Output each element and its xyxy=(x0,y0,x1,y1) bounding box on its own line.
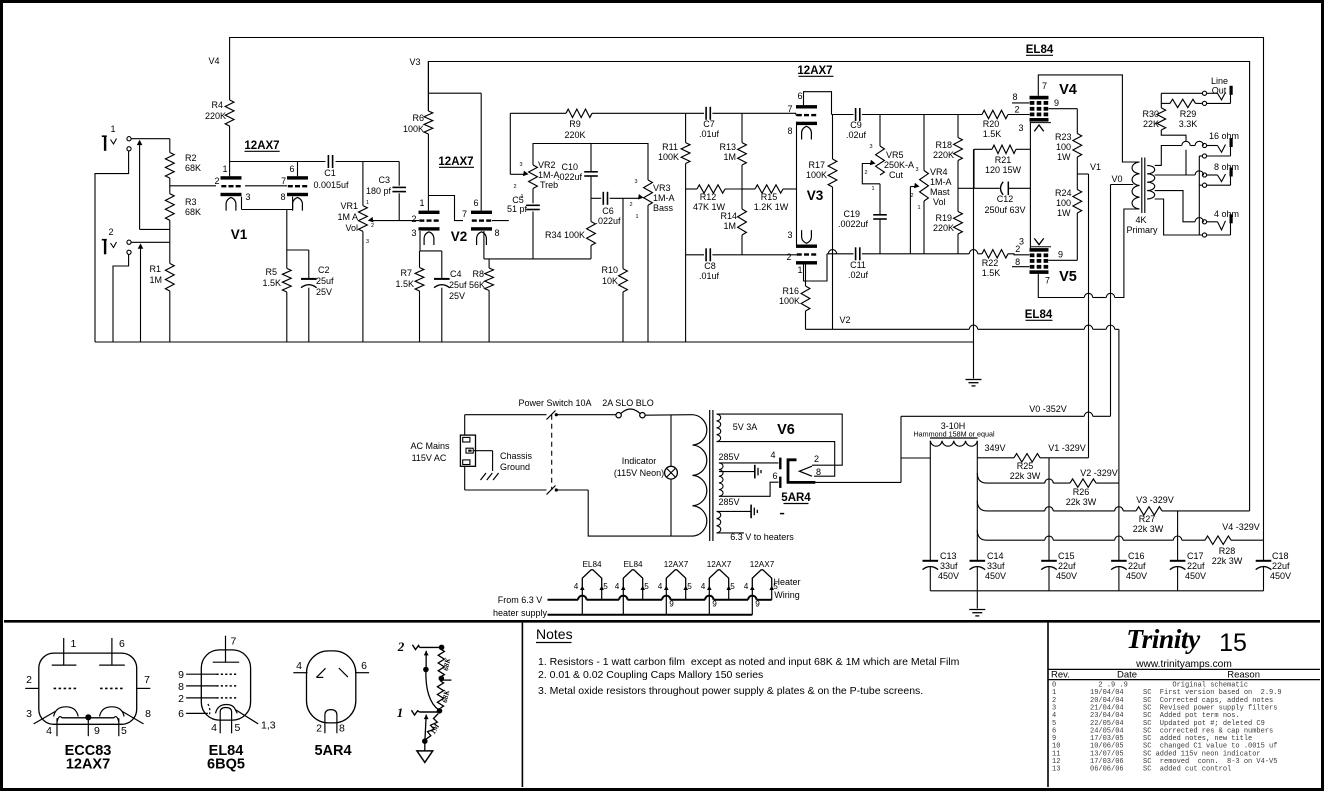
svg-text:VR1: VR1 xyxy=(340,201,358,211)
svg-text:Indicator: Indicator xyxy=(622,456,657,466)
svg-text:3: 3 xyxy=(787,230,792,240)
wire 5V bottom to rectifier pin 8 xyxy=(717,442,835,477)
svg-text:100K: 100K xyxy=(779,296,800,306)
svg-text:V1: V1 xyxy=(231,227,248,242)
wire R16 to V2 supply line xyxy=(805,311,807,329)
svg-text:6: 6 xyxy=(361,660,367,672)
svg-text:12AX7: 12AX7 xyxy=(750,560,775,569)
svg-text:349V: 349V xyxy=(984,443,1005,453)
svg-text:Reason: Reason xyxy=(1227,670,1260,681)
ground symbol filter xyxy=(969,609,985,611)
wire jack2 sleeve ground xyxy=(113,254,129,342)
svg-text:C19: C19 xyxy=(843,209,860,219)
svg-text:R12: R12 xyxy=(700,192,717,202)
svg-text:8: 8 xyxy=(145,708,151,720)
svg-text:3: 3 xyxy=(869,144,872,150)
svg-text:2: 2 xyxy=(108,227,113,237)
tube V2 triode a xyxy=(419,211,440,214)
wire rectifier B+ output xyxy=(815,481,901,483)
svg-text:Bass: Bass xyxy=(653,203,674,213)
svg-text:120 15W: 120 15W xyxy=(985,165,1022,175)
5V 3A winding xyxy=(717,414,721,442)
svg-text:R19: R19 xyxy=(935,213,952,223)
wire V0 feed down xyxy=(1110,185,1112,417)
svg-text:1: 1 xyxy=(222,164,227,174)
resistor R15 1.2K 1W xyxy=(755,185,783,193)
wire choke left leg down through C13 xyxy=(929,441,931,561)
svg-text:VR5: VR5 xyxy=(886,150,904,160)
sketch bottom node dot xyxy=(423,739,428,744)
svg-text:450V: 450V xyxy=(938,571,959,581)
resistor R12 47K 1W xyxy=(697,185,725,193)
svg-text:1: 1 xyxy=(71,638,77,650)
svg-text:220K: 220K xyxy=(933,150,954,160)
wire V1 screen feed down xyxy=(1088,174,1090,458)
divider between tube diagrams and notes xyxy=(521,623,523,787)
svg-text:C14: C14 xyxy=(987,551,1004,561)
wire VR3 bottom to ground bus xyxy=(647,205,649,342)
sketch jack1 wire and node dot xyxy=(420,711,440,713)
svg-text:1.5K: 1.5K xyxy=(395,279,414,289)
fuse xyxy=(616,413,621,418)
svg-text:1.5K: 1.5K xyxy=(983,129,1002,139)
heater 12AX7 tube 4 xyxy=(709,570,728,588)
capacitor C6 .022uf xyxy=(602,192,604,205)
5AR4 pin 6 xyxy=(355,672,369,674)
wire R30 to 8 ohm tap xyxy=(1161,130,1186,141)
svg-text:180 pf: 180 pf xyxy=(366,186,392,196)
resistor R28 22k 3W xyxy=(1205,536,1231,544)
wire VR1 bottom to ground bus xyxy=(362,231,364,342)
svg-text:25V: 25V xyxy=(449,291,465,301)
svg-text:5: 5 xyxy=(730,582,735,591)
wire jack1 tip to R2 xyxy=(131,138,170,140)
capacitor C19 .0022uf xyxy=(879,184,881,214)
svg-text:56K: 56K xyxy=(469,280,485,290)
svg-text:100: 100 xyxy=(1056,198,1071,208)
svg-text:3: 3 xyxy=(1018,123,1023,133)
svg-text:AC Mains: AC Mains xyxy=(410,441,450,451)
svg-text:C16: C16 xyxy=(1128,551,1145,561)
resistor R26 22k 3W xyxy=(1070,479,1096,487)
wire V2 grid b stub xyxy=(492,220,509,222)
svg-text:C10: C10 xyxy=(561,162,578,172)
svg-text:22uf: 22uf xyxy=(1058,561,1076,571)
wire to VR1 top xyxy=(362,162,364,206)
5AR4 plates diagonals xyxy=(316,668,325,677)
wire PI network ground drop xyxy=(685,255,687,342)
potentiometer VR1 1M A Vol xyxy=(359,206,368,232)
tube V3 triode upper xyxy=(796,105,817,108)
wire B+ riser to V0 line xyxy=(900,416,902,482)
EL84 pin 6 xyxy=(186,712,208,714)
svg-text:R8: R8 xyxy=(472,269,484,279)
resistor R7 1.5K xyxy=(415,268,424,292)
svg-text:1: 1 xyxy=(110,124,115,134)
svg-text:3: 3 xyxy=(245,192,250,202)
svg-text:4: 4 xyxy=(701,582,706,591)
capacitor C8 .01uf xyxy=(705,248,707,261)
svg-text:15: 15 xyxy=(1219,629,1247,657)
sketch top wire with node dot xyxy=(420,646,442,648)
svg-text:220K: 220K xyxy=(205,111,226,121)
wire V1 pin6 plate up xyxy=(297,162,299,177)
svg-text:Vol: Vol xyxy=(345,223,358,233)
wire V4 supply rail top xyxy=(230,38,1264,541)
switch dashed gang line xyxy=(551,415,553,490)
svg-text:R2: R2 xyxy=(185,153,197,163)
svg-text:R15: R15 xyxy=(761,192,778,202)
wire C6 line xyxy=(591,197,601,199)
sketch arrow wire and curve from jack2 xyxy=(424,651,429,656)
svg-text:3.3K: 3.3K xyxy=(1179,119,1198,129)
svg-text:6.3 V to heaters: 6.3 V to heaters xyxy=(730,532,794,542)
capacitor C9 .02uf xyxy=(855,108,857,121)
wire V4 pin8 stub xyxy=(1012,102,1030,104)
svg-text:V3: V3 xyxy=(807,188,824,203)
wire V2 pin6 supply tap xyxy=(428,92,481,94)
svg-text:R9: R9 xyxy=(569,119,581,129)
svg-text:10K: 10K xyxy=(602,276,618,286)
svg-text:R1: R1 xyxy=(149,264,161,274)
ECC83 envelope xyxy=(39,653,137,724)
resistor R5 1.5K xyxy=(286,250,288,268)
capacitor C15 22uf 450V xyxy=(1041,560,1057,562)
svg-text:R22: R22 xyxy=(982,258,999,268)
svg-text:5: 5 xyxy=(603,582,608,591)
resistor R1 1M xyxy=(165,263,174,291)
svg-text:EL84: EL84 xyxy=(1026,44,1054,56)
resistor R20 1.5K xyxy=(982,110,1008,118)
svg-text:9: 9 xyxy=(94,725,100,737)
svg-text:1: 1 xyxy=(419,198,424,208)
svg-text:22uf: 22uf xyxy=(1187,561,1205,571)
svg-text:1W: 1W xyxy=(1057,152,1071,162)
wire chassis ground stub xyxy=(473,450,492,452)
svg-text:5: 5 xyxy=(121,725,127,737)
svg-text:Ground: Ground xyxy=(500,462,530,472)
resistor R21 120 15W xyxy=(992,145,1016,153)
svg-text:8: 8 xyxy=(1012,92,1017,102)
svg-text:5: 5 xyxy=(235,722,241,734)
svg-text:Line: Line xyxy=(1211,76,1228,86)
svg-text:8: 8 xyxy=(339,723,345,735)
svg-text:Treb: Treb xyxy=(540,180,558,190)
svg-text:R5: R5 xyxy=(265,267,277,277)
svg-text:V2: V2 xyxy=(451,229,468,244)
resistor R18 220K xyxy=(957,115,959,138)
svg-text:285V: 285V xyxy=(718,497,739,507)
wire V3 node down branch xyxy=(1177,511,1179,561)
capacitor C7 .01uf xyxy=(705,107,707,120)
transformer core lines xyxy=(1141,158,1143,214)
wire R17 down to V2 supply line xyxy=(832,187,834,329)
svg-text:Cut: Cut xyxy=(889,170,904,180)
svg-text:C17: C17 xyxy=(1187,551,1204,561)
svg-text:25uf: 25uf xyxy=(449,280,467,290)
wire OT center tap V0 xyxy=(1111,184,1134,186)
svg-text:R24: R24 xyxy=(1055,188,1072,198)
svg-text:8: 8 xyxy=(1015,257,1020,267)
capacitor C4 25uf 25V xyxy=(434,278,450,280)
jack 4 ohm xyxy=(1202,220,1206,224)
svg-text:Notes: Notes xyxy=(536,626,573,642)
svg-text:R29: R29 xyxy=(1180,109,1197,119)
capacitor C2 25uf 25V xyxy=(301,278,317,280)
svg-text:4K: 4K xyxy=(1135,215,1146,225)
svg-text:100: 100 xyxy=(1056,142,1071,152)
svg-text:C1: C1 xyxy=(324,168,336,178)
svg-text:Wiring: Wiring xyxy=(774,590,800,600)
svg-text:1. Resistors - 1 watt carbon f: 1. Resistors - 1 watt carbon film except… xyxy=(538,656,960,668)
svg-text:9: 9 xyxy=(1054,98,1059,108)
svg-text:5V 3A: 5V 3A xyxy=(733,422,758,432)
wire V1 cathode down to R5 xyxy=(286,210,288,251)
heater 12AX7 tube 5 xyxy=(752,570,771,588)
capacitor C11 .02uf xyxy=(855,247,857,260)
wire V3 cathodes to tail xyxy=(796,122,798,247)
svg-text:25uf: 25uf xyxy=(316,276,334,286)
bottom panel divider line xyxy=(4,620,1320,623)
wire V1 cathodes join xyxy=(241,197,243,210)
svg-text:2: 2 xyxy=(786,252,791,262)
EL84 heater arch xyxy=(220,708,231,721)
potentiometer VR5 250K-A Cut xyxy=(879,115,881,147)
wire 8 ohm tap xyxy=(1155,174,1195,176)
svg-text:1: 1 xyxy=(871,186,874,192)
title block header underline xyxy=(1048,679,1320,681)
wire filter line 2 xyxy=(977,473,987,483)
svg-text:3: 3 xyxy=(915,167,918,173)
svg-text:4: 4 xyxy=(574,582,579,591)
svg-text:.02uf: .02uf xyxy=(848,270,869,280)
tube V2 triode b xyxy=(471,211,492,214)
svg-text:7: 7 xyxy=(231,636,237,648)
svg-text:9: 9 xyxy=(1058,250,1063,260)
wire V4 pin9 screen xyxy=(1049,108,1078,110)
tube V3 triode lower xyxy=(802,230,812,243)
svg-text:Trinity: Trinity xyxy=(1126,623,1201,654)
svg-text:R34 100K: R34 100K xyxy=(545,230,585,240)
svg-text:9: 9 xyxy=(755,600,760,609)
svg-text:2: 2 xyxy=(371,223,374,229)
wire V2 supply line xyxy=(806,328,970,330)
svg-text:250uf 63V: 250uf 63V xyxy=(984,205,1025,215)
svg-text:1M A: 1M A xyxy=(337,212,358,222)
svg-text:.022uf: .022uf xyxy=(595,216,621,226)
wire AC bottom jog xyxy=(588,490,692,536)
svg-text:450V: 450V xyxy=(1126,571,1147,581)
sketch 68K resistor lower xyxy=(437,681,443,708)
resistor R29 3.3K xyxy=(1161,102,1170,104)
HV winding 285-0-285 xyxy=(719,463,723,496)
svg-text:25V: 25V xyxy=(316,287,332,297)
wire main ground bus xyxy=(95,341,974,343)
svg-text:22uf: 22uf xyxy=(1128,561,1146,571)
choke 3-10H xyxy=(930,437,978,439)
svg-text:C11: C11 xyxy=(850,260,866,270)
capacitor C14 33uf 450V xyxy=(970,560,986,562)
EL84 pin 2 grid xyxy=(186,697,216,699)
svg-text:V0: V0 xyxy=(1111,174,1122,184)
wire 4 ohm tap xyxy=(1155,191,1195,222)
heater 12AX7 tube 3 xyxy=(666,570,685,588)
ECC83 pin 7 xyxy=(137,687,151,689)
svg-text:8: 8 xyxy=(280,192,285,202)
svg-text:4: 4 xyxy=(770,450,775,460)
svg-text:V3 -329V: V3 -329V xyxy=(1136,495,1174,505)
svg-text:Heater: Heater xyxy=(773,577,800,587)
capacitor C5 51 pf xyxy=(532,189,534,204)
svg-text:SC added cut control: SC added cut control xyxy=(1143,766,1231,774)
svg-text:C7: C7 xyxy=(703,119,715,129)
wire heater bus bottom xyxy=(548,614,753,616)
capacitor C13 33uf 450V xyxy=(923,560,939,562)
wire tone stack top rail xyxy=(533,144,648,181)
wire C8 line xyxy=(686,254,704,256)
svg-text:2: 2 xyxy=(1014,105,1019,115)
sketch 68K resistor upper xyxy=(438,650,444,677)
svg-text:51 pf: 51 pf xyxy=(507,204,528,214)
wire filter ground stub xyxy=(976,591,978,609)
svg-text:C13: C13 xyxy=(940,551,957,561)
svg-text:9: 9 xyxy=(712,600,717,609)
svg-text:12AX7: 12AX7 xyxy=(438,156,473,168)
svg-text:220K: 220K xyxy=(933,223,954,233)
svg-text:R26: R26 xyxy=(1073,487,1090,497)
wire HV top to plate pin 4 xyxy=(719,462,779,464)
wire jack1 link down xyxy=(139,141,141,229)
svg-text:1M: 1M xyxy=(149,275,162,285)
svg-text:7: 7 xyxy=(462,209,467,219)
ECC83 pin 2 xyxy=(25,687,39,689)
svg-text:R7: R7 xyxy=(400,268,412,278)
svg-text:2A SLO BLO: 2A SLO BLO xyxy=(602,398,654,408)
svg-text:12AX7: 12AX7 xyxy=(66,757,110,773)
svg-text:R21: R21 xyxy=(995,155,1012,165)
EL84 pin 9 grid xyxy=(186,673,216,675)
svg-text:115V AC: 115V AC xyxy=(412,453,447,463)
svg-text:1: 1 xyxy=(797,265,802,275)
heater EL84 tube 2 xyxy=(623,570,642,588)
transformer secondary winding xyxy=(1147,165,1155,199)
svg-text:Primary: Primary xyxy=(1127,225,1158,235)
svg-text:4: 4 xyxy=(46,725,52,737)
svg-text:Hammond 158M or equal: Hammond 158M or equal xyxy=(913,429,995,438)
svg-text:C12: C12 xyxy=(997,194,1014,204)
ECC83 pin 8 diagonal xyxy=(122,711,144,724)
sketch ground triangle xyxy=(424,743,426,751)
resistor R10 10K xyxy=(622,198,624,268)
wire V1 screen node xyxy=(1076,157,1078,174)
resistor R16 100K xyxy=(805,265,807,287)
svg-text:R30: R30 xyxy=(1142,109,1159,119)
wire R18 R19 midpoint to C12 line xyxy=(958,187,974,189)
svg-text:V3: V3 xyxy=(409,57,420,67)
EL84 envelope xyxy=(201,650,250,720)
resistor R23 100 1W xyxy=(1073,134,1082,158)
wire cathode ground column xyxy=(973,149,975,378)
resistor R34 100K xyxy=(587,222,596,246)
svg-text:9: 9 xyxy=(669,600,674,609)
svg-text:9: 9 xyxy=(178,669,184,681)
svg-text:8: 8 xyxy=(787,126,792,136)
wire V5 pin8 stub xyxy=(1012,266,1030,268)
svg-text:7: 7 xyxy=(1042,81,1047,91)
svg-text:5: 5 xyxy=(687,582,692,591)
resistor R4 220K xyxy=(225,100,234,126)
capacitor C1 0.0015uf xyxy=(298,161,326,163)
svg-text:R10: R10 xyxy=(601,265,618,275)
svg-text:4: 4 xyxy=(744,582,749,591)
svg-text:R3: R3 xyxy=(185,197,197,207)
svg-text:22k 3W: 22k 3W xyxy=(1010,471,1041,481)
resistor R6 100K xyxy=(427,62,429,112)
wire 6.3V top to ground xyxy=(717,510,751,512)
svg-text:2: 2 xyxy=(397,639,405,654)
svg-text:2. 0.01 & 0.02 Coupling Caps M: 2. 0.01 & 0.02 Coupling Caps Mallory 150… xyxy=(538,669,763,681)
resistor R30 22K feedback xyxy=(1157,108,1166,130)
svg-text:3: 3 xyxy=(519,162,522,168)
svg-text:R23: R23 xyxy=(1055,132,1072,142)
ECC83 pins 4 9 5 xyxy=(56,718,58,736)
svg-text:450V: 450V xyxy=(985,571,1006,581)
svg-text:6: 6 xyxy=(772,471,777,481)
potentiometer VR2 1M-A Treb xyxy=(529,165,538,189)
EL84 pin 1,3 diagonal xyxy=(235,710,258,724)
wire jack1 sleeve ground xyxy=(95,151,129,342)
heater EL84 tube 1 xyxy=(582,570,601,588)
resistor R22 1.5K xyxy=(982,250,1008,258)
svg-text:6: 6 xyxy=(289,164,294,174)
svg-text:450V: 450V xyxy=(1270,571,1291,581)
svg-text:R20: R20 xyxy=(983,119,1000,129)
svg-text:Mast: Mast xyxy=(930,187,950,197)
svg-text:250K-A: 250K-A xyxy=(884,160,914,170)
svg-text:R4: R4 xyxy=(211,100,223,110)
resistor R3 68K xyxy=(165,194,174,221)
svg-text:100K: 100K xyxy=(658,152,679,162)
svg-text:1.2K 1W: 1.2K 1W xyxy=(754,202,789,212)
svg-text:.022uf: .022uf xyxy=(557,172,583,182)
svg-text:450V: 450V xyxy=(1185,571,1206,581)
chassis ground symbol xyxy=(481,473,487,480)
wire PI feed to C7 and V3 grid xyxy=(686,112,704,114)
svg-text:12AX7: 12AX7 xyxy=(664,560,689,569)
wire 16 ohm tap xyxy=(1155,146,1182,166)
svg-text:1: 1 xyxy=(397,705,404,720)
capacitor C3 180 pf xyxy=(398,162,400,186)
svg-text:22k 3W: 22k 3W xyxy=(1133,524,1164,534)
ECC83 pin 1 xyxy=(63,638,65,665)
svg-text:EL84: EL84 xyxy=(582,560,602,569)
svg-text:EL84: EL84 xyxy=(623,560,643,569)
svg-text:2: 2 xyxy=(26,674,32,686)
svg-text:V2: V2 xyxy=(839,315,850,325)
svg-text:1.5K: 1.5K xyxy=(982,268,1001,278)
wire 6.3V bottom stub xyxy=(717,532,745,534)
svg-text:Power Switch 10A: Power Switch 10A xyxy=(518,398,591,408)
svg-text:www.trinityamps.com: www.trinityamps.com xyxy=(1135,659,1232,670)
svg-text:1.5K: 1.5K xyxy=(262,278,281,288)
svg-text:.01uf: .01uf xyxy=(699,129,720,139)
ECC83 grids dashed xyxy=(54,687,78,689)
svg-text:1: 1 xyxy=(635,214,638,220)
resistor R2 68K xyxy=(165,153,174,179)
wire 5V top to rectifier pin 2 xyxy=(717,414,843,465)
svg-text:3: 3 xyxy=(366,239,369,245)
wire V3 pin1 plate jog to C11 line xyxy=(804,254,828,281)
